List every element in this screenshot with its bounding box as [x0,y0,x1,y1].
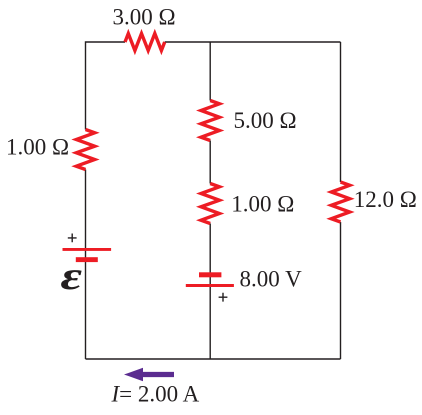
resistor R left 1.00 ohm [76,130,94,170]
label emf epsilon [61,254,82,299]
wire left lower segment [85,170,87,360]
svg-text:8.00 V: 8.00 V [240,267,303,292]
wire right lower segment [340,222,342,359]
wire middle lower segment [209,224,211,360]
svg-text:3.00 Ω: 3.00 Ω [113,5,176,30]
wire middle upper segment [209,42,211,101]
wire bottom segment [86,358,341,360]
wire middle between resistors [209,141,211,184]
plus sign left battery [68,234,77,243]
resistor R top 3.00 ohm [125,34,165,51]
resistor R middle 5.00 ohm [201,101,219,141]
resistor R middle 1.00 ohm [201,184,219,224]
wire right upper segment [340,42,342,182]
plus sign middle battery [219,293,228,302]
battery emf short plate [76,257,98,262]
svg-text:ε: ε [61,254,82,299]
resistor R right 12.0 ohm [331,182,349,222]
current arrow [124,368,174,381]
wire top-left segment [86,42,126,130]
battery 8V short plate [199,272,221,277]
svg-text:12.0 Ω: 12.0 Ω [354,187,417,212]
battery 8V long plate [186,284,234,287]
svg-text:5.00 Ω: 5.00 Ω [234,108,297,133]
svg-text:I= 2.00 A: I= 2.00 A [111,382,200,407]
svg-text:1.00 Ω: 1.00 Ω [231,192,294,217]
wire top-right segment [165,41,341,43]
battery emf long plate [63,248,112,251]
svg-text:1.00 Ω: 1.00 Ω [6,135,69,160]
